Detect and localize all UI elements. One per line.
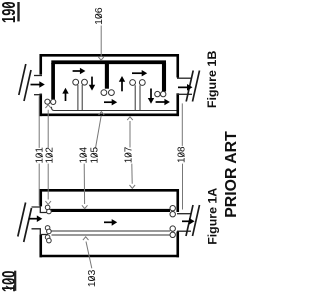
underline of 100 [14,271,16,291]
sheet number 190 (rotated) [0,1,19,23]
caption Figure 1A (rotated) [206,187,220,244]
reference numeral 100 (rotated, bottom-left) [0,271,19,293]
flow arrow up, left zone [62,88,68,101]
curl at right end of thick web [170,206,175,217]
roller curls under middle leg [101,90,114,96]
web exit arrow 1A [182,218,195,225]
substrate web 104 (thick line) [50,209,170,212]
label 105 [90,147,101,164]
leaders 101 [38,96,40,205]
label 103 (rotated, below Figure 1A) [87,269,98,287]
bottom return web line 105 in 1B [51,107,176,111]
label 106 (rotated) [94,7,105,25]
label 107 [124,146,135,163]
exit slot lips 1A [177,214,191,232]
flow arrow right, bottom middle [104,99,117,105]
exit slot lips 1B [177,78,192,94]
svg-text:PRIOR ART: PRIOR ART [223,131,240,218]
flow arrow down, right zone [148,89,154,104]
roller curls under right leg [155,91,166,96]
hanging web guide pair, left zone [78,85,82,111]
web entry arrow 1B [31,81,45,88]
flow arrow right, bottom right [156,99,170,105]
furnace chamber wall 101 (box of Figure 1A) [40,189,180,257]
leader line 106 [98,26,103,61]
web break slashes at 1A entry [18,203,32,243]
label 104 [79,147,90,164]
svg-text:Figure 1B: Figure 1B [205,50,219,108]
web entry arrow 1A [29,215,43,222]
entry slot lips 1B [34,76,42,95]
flow arrow down, left zone [89,77,95,91]
heater muffle 106 (thick inverted-U rail with three legs) [51,62,166,99]
web break slashes at 1A exit [186,205,200,236]
underline of 190 [17,2,19,21]
leaders 102 [45,105,51,205]
curl at right end of lower rail [170,232,175,237]
svg-text:Figure 1A: Figure 1A [206,187,220,244]
caption PRIOR ART (rotated) [223,131,240,218]
web break slashes at 1B entry [19,64,31,101]
web exit arrow 1B [178,84,193,91]
roller curls under left leg [45,99,56,104]
furnace chamber wall 101 (box of Figure 1B) [40,54,180,116]
curl at left end of upper rail [45,226,51,234]
label 102 [45,147,56,164]
flow arrow up, right zone [119,76,125,91]
label 101 [35,147,46,164]
flow arrow inside 1A [104,219,117,226]
leader 104 [82,164,88,209]
flow arrow right, top right zone [132,70,147,76]
curl at right end of upper rail [170,226,175,231]
entry slot baffle lips 1A (stepped) [32,207,49,235]
curl at left end of thick web [45,205,51,214]
leaders 108 [181,103,183,209]
svg-text:190: 190 [0,1,19,23]
caption Figure 1B (rotated) [205,50,219,108]
leaders 107 [127,117,135,189]
guide rail 103 upper thin line [52,230,171,232]
web break slashes at 1B exit [186,71,199,102]
flow arrow right, top left zone [73,68,86,74]
leader 103 [83,237,92,268]
guide rail 103 lower thin line [52,234,171,236]
hanging web guide pair, right zone [135,85,140,110]
label 108 [177,146,188,163]
curl at left end of lower rail [45,235,51,243]
leader 105 [96,112,105,148]
